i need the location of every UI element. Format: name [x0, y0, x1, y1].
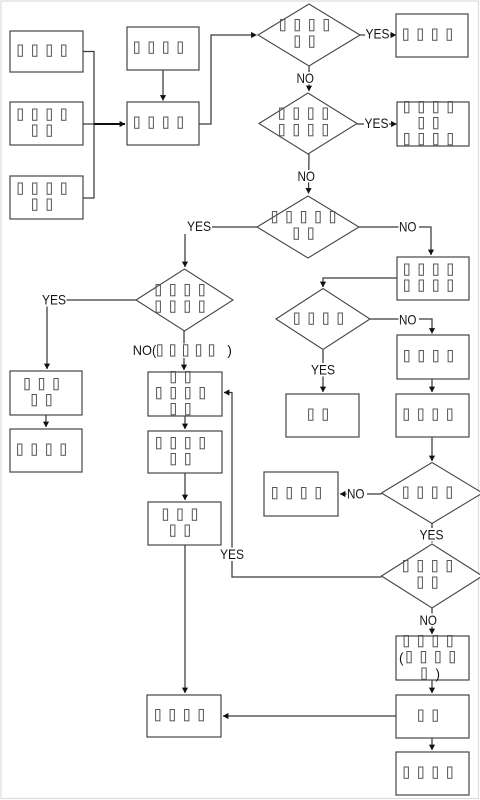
- svg-text:NO: NO: [297, 70, 315, 86]
- svg-text:YES: YES: [187, 218, 211, 234]
- box G4: [147, 695, 221, 737]
- box F1: [10, 371, 82, 415]
- box E2: [286, 394, 359, 437]
- wire C6 to C7: [431, 680, 433, 693]
- box C6 paren text rows: [399, 636, 454, 682]
- svg-text:(: (: [399, 651, 404, 666]
- svg-text:YES: YES: [420, 527, 444, 543]
- wire D4 yes to F1: [47, 300, 136, 369]
- label YES6: [419, 527, 445, 543]
- box F2: [10, 429, 82, 472]
- wire A2 to B2 (bold arrow): [94, 123, 125, 125]
- wire B1 to B2: [162, 70, 164, 101]
- svg-text:NO: NO: [399, 219, 417, 235]
- wire C7 to C8: [431, 738, 433, 750]
- box C1: [396, 14, 468, 57]
- wire D6 no to E1: [340, 493, 382, 495]
- box B1: [127, 27, 199, 70]
- decision diamond D5: [276, 289, 370, 350]
- decision diamond D6: [382, 463, 480, 524]
- label NO7: [419, 612, 440, 628]
- label YES4: [42, 292, 67, 308]
- label NO3: [399, 219, 420, 235]
- wire C5 to D6: [431, 437, 433, 461]
- svg-text:YES: YES: [311, 362, 335, 378]
- svg-text:): ): [227, 342, 232, 358]
- wire C7 to G4: [223, 715, 396, 717]
- svg-text:NO: NO: [298, 168, 316, 184]
- wire D7 no to C6: [431, 608, 433, 634]
- label NO4 (with parenthesised tofu text): [133, 342, 239, 358]
- wire D7 yes loop to G1: [224, 393, 382, 578]
- wire F1 to F2: [45, 415, 47, 427]
- box E1: [264, 472, 338, 516]
- label YES5: [311, 362, 336, 378]
- wire D6 yes to D7: [431, 524, 433, 543]
- wire D2 yes to C2: [357, 123, 397, 125]
- box C4: [397, 335, 469, 379]
- svg-text:NO: NO: [347, 486, 365, 502]
- box B2: [127, 102, 199, 145]
- wire A1-A3 trunk: [83, 52, 94, 199]
- wire C3 to D5: [323, 278, 397, 287]
- svg-text:YES: YES: [220, 546, 244, 562]
- box C2: [397, 102, 469, 147]
- wire D5 no to C4: [370, 319, 432, 334]
- label NO2: [297, 168, 318, 184]
- wire G3 to G4: [184, 545, 186, 693]
- label NO6: [347, 486, 368, 502]
- box G2: [148, 431, 222, 473]
- label NO1: [296, 70, 317, 86]
- label YES2: [364, 115, 389, 131]
- wire C4 to C5: [431, 379, 433, 392]
- box A3: [10, 176, 83, 219]
- box G3: [148, 502, 221, 545]
- wire D4 no to G1: [183, 331, 185, 370]
- decision diamond D7: [382, 544, 480, 608]
- svg-text:YES: YES: [365, 115, 389, 131]
- wire D1 no to D2: [308, 66, 310, 91]
- wire G1 to G2: [184, 416, 186, 429]
- box A2: [10, 102, 83, 145]
- svg-text:): ): [436, 667, 441, 682]
- svg-text:NO(: NO(: [133, 342, 157, 358]
- decision diamond D1: [258, 4, 360, 66]
- wire B2 to D1: [199, 35, 257, 124]
- wire D1 yes to C1: [360, 34, 396, 36]
- label NO5: [399, 312, 420, 328]
- svg-text:NO: NO: [399, 312, 417, 328]
- label YES7: [220, 546, 246, 562]
- svg-text:YES: YES: [42, 292, 66, 308]
- box C8: [396, 752, 469, 795]
- box C3: [397, 257, 469, 300]
- box C6: [396, 636, 469, 680]
- label YES1: [365, 26, 390, 42]
- wire D3 no to C3: [359, 227, 431, 255]
- box A1: [10, 31, 83, 72]
- box C5: [396, 394, 469, 437]
- wire G2 to G3: [184, 473, 186, 500]
- wire D3 yes to D4: [185, 227, 257, 267]
- svg-text:YES: YES: [366, 26, 390, 42]
- decision diamond D4: [136, 269, 233, 331]
- wire D2 no to D3: [308, 154, 311, 194]
- box G1: [148, 372, 222, 417]
- svg-text:NO: NO: [420, 612, 438, 628]
- label YES3: [181, 218, 213, 234]
- box C7: [396, 695, 469, 738]
- decision diamond D3: [257, 196, 359, 258]
- wire A2 to B2 stub: [83, 123, 94, 125]
- wire D5 yes to E2: [322, 350, 324, 392]
- decision diamond D2: [259, 93, 357, 154]
